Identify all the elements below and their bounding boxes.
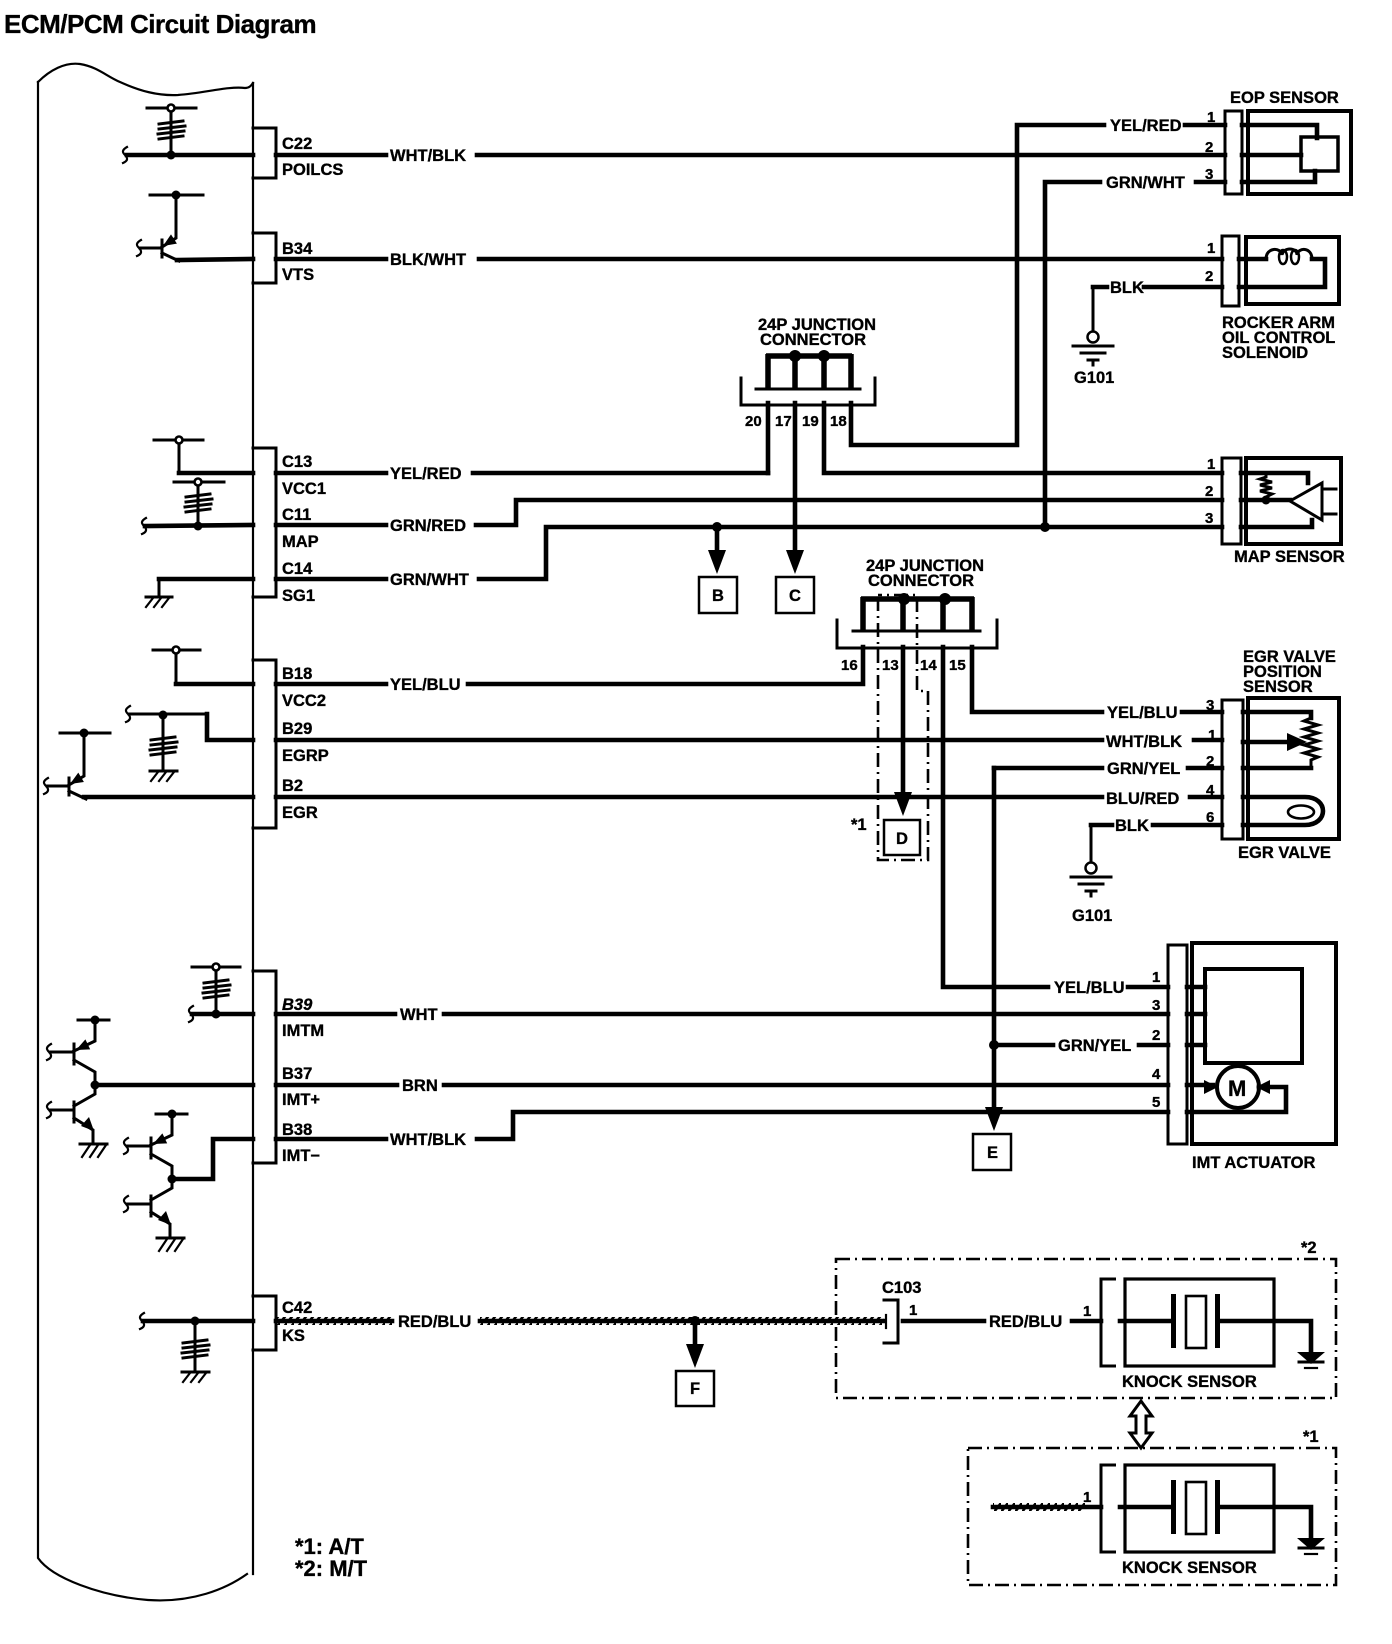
C13 internal supply terminal: [154, 437, 203, 474]
wire B37 BRN to IMT pin 4: [276, 1077, 1168, 1095]
B18 internal supply terminal: [153, 647, 200, 685]
B38 internal transistor Q6 (NPN bottom): [124, 1179, 172, 1237]
svg-text:C: C: [789, 587, 801, 605]
C22 internal resistor R1: [158, 112, 185, 160]
junction 1 pin 19 wire YEL/RED to MAP pin 1: [824, 403, 1222, 473]
pin group B18/B29/B2 bracket: [253, 660, 329, 828]
svg-text:M: M: [1228, 1076, 1246, 1101]
junction 1 pin 20 wire: [766, 403, 771, 473]
svg-text:3: 3: [1205, 510, 1213, 527]
svg-text:B37: B37: [282, 1065, 312, 1083]
svg-text:C11: C11: [282, 506, 311, 524]
svg-text:IMT+: IMT+: [282, 1091, 320, 1109]
C14 wire: [159, 577, 253, 582]
svg-text:BRN: BRN: [402, 1077, 438, 1095]
svg-text:2: 2: [1205, 483, 1213, 500]
C11 internal supply terminal and resistor R2: [174, 479, 224, 531]
svg-text:CONNECTOR: CONNECTOR: [760, 331, 866, 349]
svg-text:17: 17: [775, 413, 792, 430]
svg-text:WHT/BLK: WHT/BLK: [390, 147, 466, 165]
svg-text:YEL/RED: YEL/RED: [1110, 117, 1182, 135]
B2 internal rail bar: [60, 729, 110, 738]
svg-text:1: 1: [1083, 1489, 1091, 1506]
svg-text:3: 3: [1152, 997, 1160, 1014]
junction 2 pin 15 wire YEL/BLU to EGR pin 3: [972, 647, 1222, 722]
svg-text:B38: B38: [282, 1121, 312, 1139]
knock sensor 1 (M/T): [1101, 1279, 1311, 1391]
svg-text:2: 2: [1205, 139, 1213, 156]
svg-text:B34: B34: [282, 240, 313, 258]
svg-text:GRN/WHT: GRN/WHT: [1106, 174, 1185, 192]
svg-text:3: 3: [1205, 166, 1213, 183]
svg-text:GRN/YEL: GRN/YEL: [1107, 760, 1180, 778]
svg-text:1: 1: [1083, 1303, 1091, 1320]
B38 internal rail bar: [156, 1110, 187, 1119]
connector C103: [882, 1279, 921, 1343]
svg-text:MAP: MAP: [282, 533, 319, 551]
C11 wire with break: [142, 518, 253, 534]
svg-text:18: 18: [830, 413, 847, 430]
svg-text:D: D: [896, 830, 908, 848]
svg-text:*2: *2: [1301, 1239, 1317, 1257]
pin B34 bracket: [253, 233, 314, 284]
B2 internal transistor Q2: [44, 733, 86, 799]
junction 2 pin 14 wire YEL/BLU to IMT pin 1: [943, 647, 1168, 997]
svg-text:*2: M/T: *2: M/T: [295, 1556, 368, 1581]
pin C22 bracket: [253, 128, 343, 179]
24P junction connector 2: [837, 557, 997, 674]
svg-text:1: 1: [1207, 456, 1215, 473]
node B arrow from GRN/WHT: [708, 522, 726, 574]
svg-text:1: 1: [1208, 727, 1216, 744]
svg-text:RED/BLU: RED/BLU: [989, 1313, 1062, 1331]
variant notes: [295, 1534, 368, 1581]
svg-text:C14: C14: [282, 560, 313, 578]
B39 wire with break: [189, 1006, 253, 1022]
B38 wire jog: [172, 1139, 253, 1179]
EGR valve position sensor U3: [1206, 648, 1339, 839]
wire B34 BLK/WHT to rocker solenoid pin 1: [276, 251, 1222, 269]
GRN/WHT branch to EOP pin 3: [1040, 174, 1225, 532]
junction 1 pin 17 wire with arrow to C: [786, 403, 804, 574]
svg-text:G101: G101: [1074, 369, 1114, 387]
svg-text:B29: B29: [282, 720, 312, 738]
svg-text:16: 16: [841, 657, 858, 674]
svg-text:2: 2: [1205, 268, 1213, 285]
svg-text:IMTM: IMTM: [282, 1022, 324, 1040]
C14 internal ground: [146, 579, 172, 607]
wire B39 WHT to IMT pin 3: [276, 1006, 1168, 1024]
svg-text:19: 19: [802, 413, 819, 430]
wire B38 WHT/BLK to IMT pin 5: [276, 1112, 1168, 1149]
wire C11 GRN/RED to MAP pin 2: [276, 500, 1222, 535]
24P junction connector 1: [741, 316, 876, 430]
svg-text:5: 5: [1152, 1094, 1160, 1111]
svg-text:YEL/BLU: YEL/BLU: [390, 676, 461, 694]
svg-text:B39: B39: [282, 996, 313, 1014]
EGR position sensor potentiometer: [1243, 712, 1318, 768]
svg-text:2: 2: [1206, 753, 1214, 770]
svg-text:IMT−: IMT−: [282, 1147, 320, 1165]
connector E box: [973, 1134, 1011, 1170]
svg-text:1: 1: [909, 1302, 917, 1319]
connector D box: [884, 820, 920, 855]
IMT actuator motor M: [1187, 1066, 1286, 1112]
svg-text:13: 13: [882, 657, 899, 674]
svg-text:KS: KS: [282, 1327, 305, 1345]
MAP sensor U2: [1205, 456, 1345, 566]
ground G101 (upper): [1073, 332, 1114, 388]
svg-text:G101: G101: [1072, 907, 1112, 925]
svg-text:WHT/BLK: WHT/BLK: [1106, 733, 1182, 751]
C22 wire with break mark: [123, 147, 253, 163]
svg-text:GRN/WHT: GRN/WHT: [390, 571, 469, 589]
wire B18 YEL/BLU to junction 2 pin 16: [276, 647, 863, 694]
B38 lower ground: [157, 1238, 184, 1251]
svg-text:*1: *1: [851, 816, 867, 834]
svg-text:1: 1: [1207, 109, 1215, 126]
svg-text:1: 1: [1152, 969, 1160, 986]
svg-text:B18: B18: [282, 665, 312, 683]
B39 internal supply terminal: [192, 964, 240, 971]
svg-text:3: 3: [1206, 697, 1214, 714]
knock sensor A/T dashed box *1: [968, 1428, 1336, 1585]
svg-text:B2: B2: [282, 777, 303, 795]
svg-text:C42: C42: [282, 1299, 312, 1317]
svg-text:20: 20: [745, 413, 762, 430]
knock sensor 1 RED/BLU wire: [903, 1303, 1101, 1331]
svg-text:BLK: BLK: [1115, 817, 1149, 835]
B37 lower ground: [80, 1144, 107, 1157]
wire B2 BLU/RED to EGR valve pin 4: [276, 790, 1222, 808]
svg-text:C22: C22: [282, 135, 312, 153]
svg-text:YEL/BLU: YEL/BLU: [1107, 704, 1178, 722]
svg-text:SOLENOID: SOLENOID: [1222, 344, 1308, 362]
connector F box: [676, 1371, 714, 1406]
B37 internal transistor Q3 (PNP top): [47, 1020, 95, 1085]
B37 internal transistor Q4 (NPN bottom): [47, 1081, 100, 1144]
B38 internal transistor Q5 (PNP top): [124, 1114, 177, 1184]
B37 wire: [95, 1083, 253, 1088]
svg-text:E: E: [987, 1144, 998, 1162]
ground G101 (lower): [1071, 863, 1112, 926]
svg-text:15: 15: [949, 657, 966, 674]
BLK wire to G101 (rocker): [1093, 279, 1222, 332]
svg-text:CONNECTOR: CONNECTOR: [868, 572, 974, 590]
svg-text:SENSOR: SENSOR: [1243, 678, 1313, 696]
EOP sensor U1: [1205, 89, 1351, 194]
double arrow between knock variants: [1130, 1401, 1152, 1448]
svg-text:KNOCK SENSOR: KNOCK SENSOR: [1122, 1373, 1257, 1391]
svg-text:SG1: SG1: [282, 587, 315, 605]
C42 internal resistor R5 to ground: [140, 1313, 253, 1382]
pin group B39/B37/B38 bracket: [253, 971, 324, 1165]
rocker arm oil control solenoid L1: [1205, 236, 1339, 362]
svg-text:14: 14: [920, 657, 937, 674]
svg-text:IMT ACTUATOR: IMT ACTUATOR: [1192, 1154, 1316, 1172]
svg-text:MAP SENSOR: MAP SENSOR: [1234, 548, 1345, 566]
B37 internal rail bar: [78, 1016, 109, 1025]
svg-text:4: 4: [1206, 782, 1215, 799]
C22 internal: supply terminal: [147, 105, 196, 112]
svg-text:C13: C13: [282, 453, 312, 471]
svg-text:EGRP: EGRP: [282, 747, 329, 765]
node F arrow from KS wire: [686, 1316, 704, 1368]
wire C14 GRN/WHT to MAP pin 3: [276, 527, 1222, 589]
ECM/PCM band outline: [38, 64, 253, 1601]
C13 wire: [179, 471, 253, 476]
svg-text:BLK/WHT: BLK/WHT: [390, 251, 466, 269]
pin group C13/C11/C14 bracket: [253, 448, 326, 605]
B18 wire: [176, 682, 253, 687]
B29 wire: [207, 714, 253, 740]
B34 internal transistor Q1: [137, 195, 179, 261]
svg-text:EGR VALVE: EGR VALVE: [1238, 844, 1331, 862]
knock sensor M/T dashed box *2: [836, 1239, 1336, 1398]
svg-text:GRN/YEL: GRN/YEL: [1058, 1037, 1131, 1055]
svg-text:EOP SENSOR: EOP SENSOR: [1230, 89, 1339, 107]
svg-text:VTS: VTS: [282, 266, 314, 284]
svg-text:RED/BLU: RED/BLU: [398, 1313, 471, 1331]
svg-text:BLU/RED: BLU/RED: [1106, 790, 1179, 808]
svg-text:C103: C103: [882, 1279, 921, 1297]
svg-text:GRN/RED: GRN/RED: [390, 517, 466, 535]
svg-text:KNOCK SENSOR: KNOCK SENSOR: [1122, 1559, 1257, 1577]
knock sensor 2 shielded wire: [993, 1489, 1101, 1511]
svg-text:VCC1: VCC1: [282, 480, 326, 498]
svg-text:2: 2: [1152, 1027, 1160, 1044]
wire C22 WHT/BLK to EOP pin 2: [276, 147, 1225, 165]
GRN/YEL branch to IMT pin 2: [989, 1037, 1168, 1055]
D dashed variant outline: [851, 595, 928, 860]
B34 internal rail bar: [150, 191, 203, 200]
junction 2 pin 13 arrow to D (A/T): [894, 647, 912, 816]
svg-text:EGR: EGR: [282, 804, 318, 822]
connector B box: [699, 577, 737, 613]
GRN/YEL wire EGR pin 2 riser: [994, 760, 1222, 1113]
svg-text:POILCS: POILCS: [282, 161, 343, 179]
wire B29 WHT/BLK to EGR sensor pin 1: [276, 733, 1222, 751]
BLK wire to G101 (EGR): [1091, 817, 1222, 863]
knock sensor 2 (A/T): [1101, 1465, 1311, 1577]
connector C box: [776, 577, 814, 613]
node E arrow: [985, 1107, 1003, 1131]
knock sensor 2 ground: [1297, 1538, 1325, 1554]
EGR valve solenoid L2: [1238, 797, 1331, 862]
svg-text:ECM/PCM Circuit Diagram: ECM/PCM Circuit Diagram: [4, 9, 316, 39]
B29 internal resistor R3 to ground: [126, 706, 207, 781]
B34 wire: [177, 259, 253, 260]
pin C42 bracket: [253, 1296, 312, 1350]
svg-text:VCC2: VCC2: [282, 692, 326, 710]
svg-text:*1: *1: [1303, 1428, 1319, 1446]
B39 internal resistor R4: [203, 971, 230, 1019]
svg-text:B: B: [712, 587, 724, 605]
svg-text:WHT: WHT: [400, 1006, 438, 1024]
IMT actuator M1: [1152, 943, 1336, 1172]
wire C42 RED/BLU shielded to knock sensor: [276, 1313, 884, 1331]
svg-text:1: 1: [1207, 240, 1215, 257]
knock sensor 1 ground: [1297, 1352, 1325, 1368]
junction 1 pin 18 wire YEL/RED riser to EOP pin 1: [851, 117, 1225, 445]
wire C13 YEL/RED to junction pin 20: [276, 465, 768, 483]
svg-text:YEL/RED: YEL/RED: [390, 465, 462, 483]
svg-text:BLK: BLK: [1110, 279, 1144, 297]
svg-text:YEL/BLU: YEL/BLU: [1054, 979, 1125, 997]
svg-text:WHT/BLK: WHT/BLK: [390, 1131, 466, 1149]
svg-text:4: 4: [1152, 1066, 1161, 1083]
B2 wire: [84, 795, 253, 800]
svg-text:F: F: [690, 1380, 700, 1398]
